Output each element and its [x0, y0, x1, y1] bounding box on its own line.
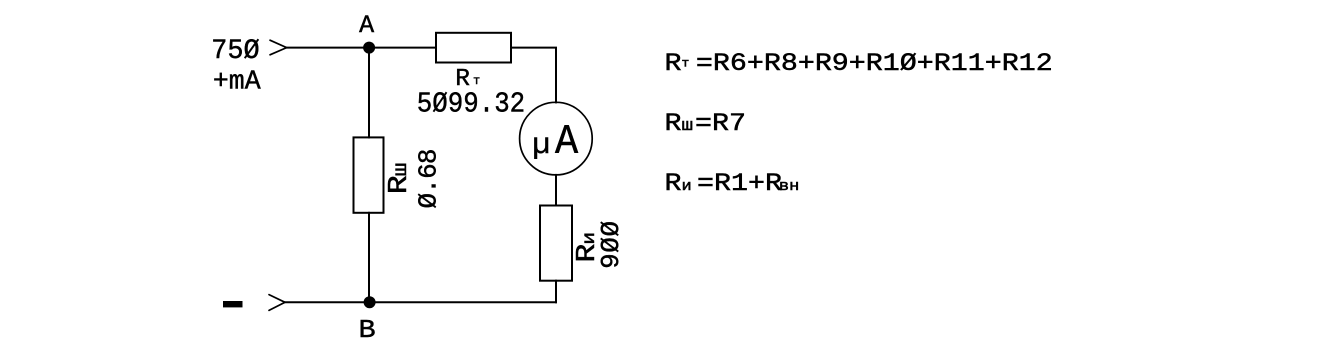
svg-text:+mA: +mA: [213, 66, 261, 96]
svg-text:5Ø99.32: 5Ø99.32: [417, 88, 525, 121]
svg-text:A: A: [359, 11, 374, 40]
svg-text:µ: µ: [532, 129, 550, 163]
svg-text:75Ø: 75Ø: [211, 35, 259, 67]
svg-text:Rш=R7: Rш=R7: [665, 110, 746, 138]
svg-text:Rт=R6+R8+R9+R1Ø+R11+R12: Rт=R6+R8+R9+R1Ø+R11+R12: [665, 50, 1053, 78]
svg-text:B: B: [359, 316, 376, 345]
svg-text:Ø.68: Ø.68: [414, 149, 444, 208]
svg-text:9ØØ: 9ØØ: [596, 220, 626, 269]
svg-text:A: A: [555, 119, 579, 167]
